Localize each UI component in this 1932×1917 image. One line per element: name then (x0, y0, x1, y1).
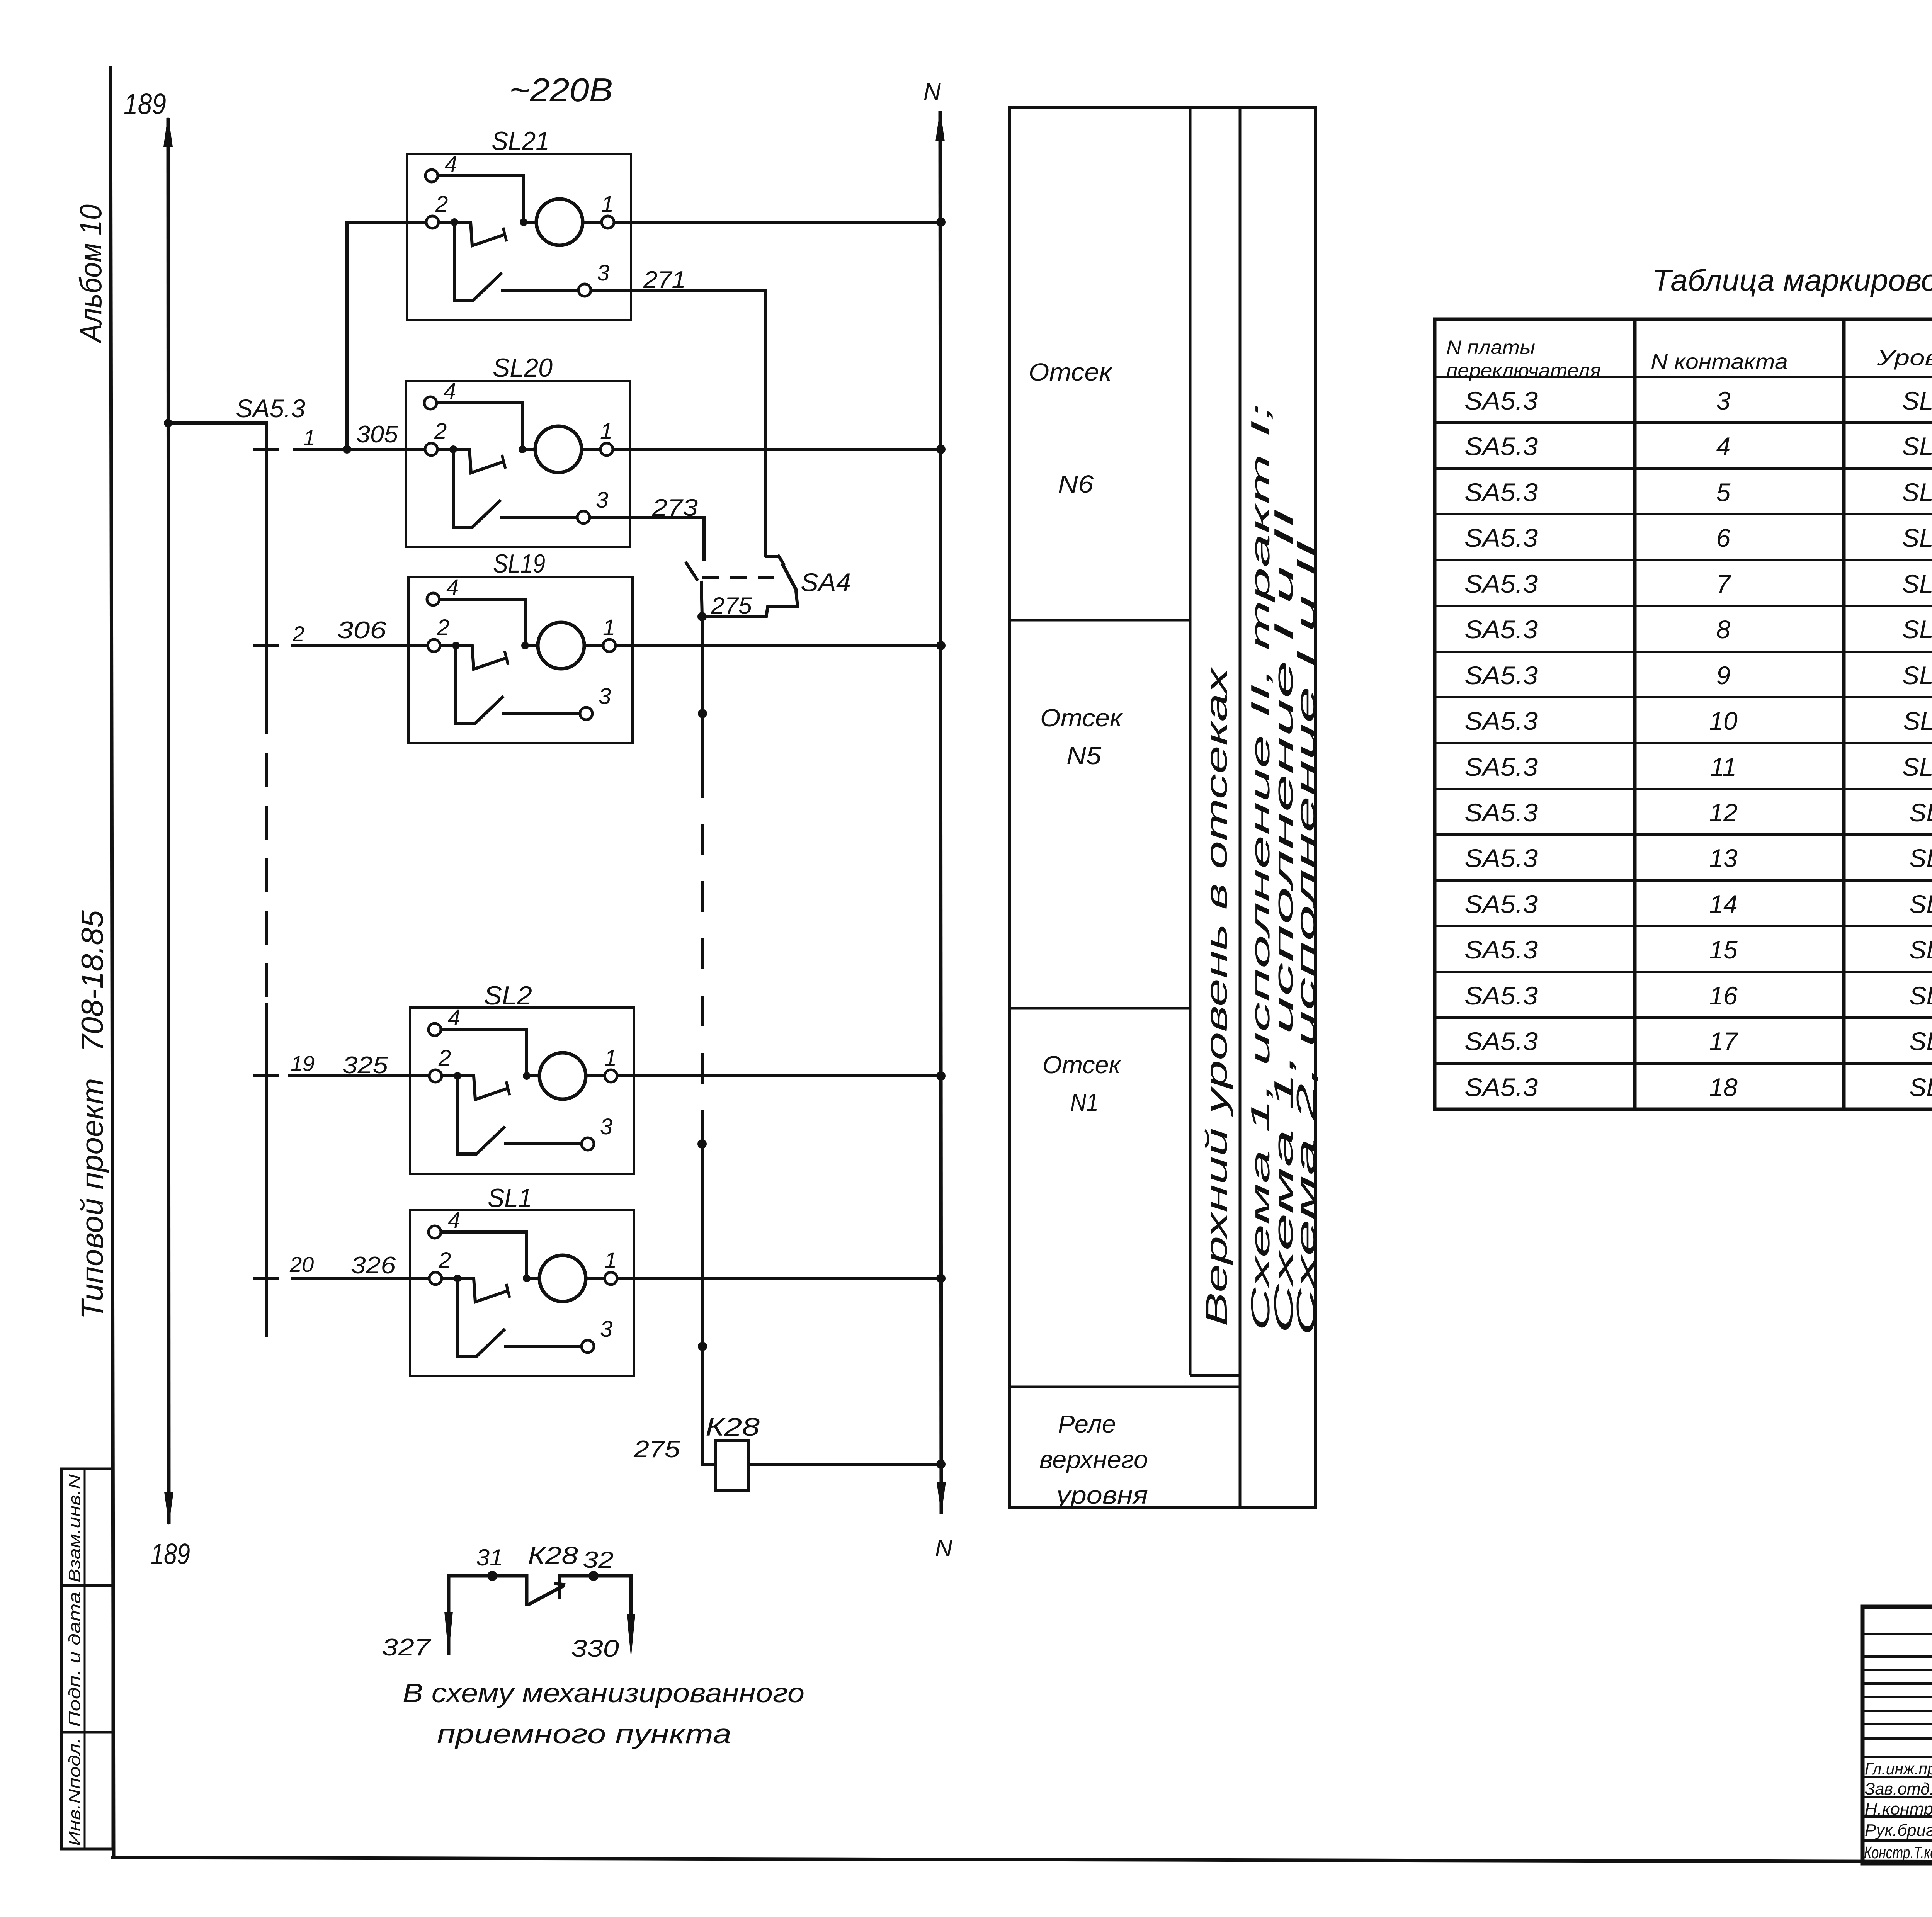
svg-text:Отсек: Отсек (1029, 358, 1113, 386)
svg-text:N: N (923, 78, 941, 105)
wire SL2 pin1 to N bus (617, 1074, 941, 1077)
svg-text:Верхний уровень в отсеках: Верхний уровень в отсеках (1199, 666, 1233, 1326)
terminal dot 32 (588, 1571, 599, 1581)
svg-text:Подп. и дата: Подп. и дата (65, 1592, 83, 1727)
svg-text:SL2: SL2 (484, 981, 532, 1010)
wire from SA4 left contact down to node 275 (701, 581, 702, 617)
svg-text:SL19: SL19 (493, 549, 545, 578)
divider Отсек N6 / N5 (1010, 619, 1190, 622)
wire 325 (288, 1074, 429, 1077)
wire 305 (293, 448, 425, 451)
svg-text:31: 31 (476, 1545, 503, 1570)
junction dot SL19.1 on N bus (936, 641, 946, 650)
sheet frame bottom border (111, 1858, 1932, 1863)
svg-text:SL20: SL20 (493, 353, 553, 382)
svg-text:SL3: SL3 (1909, 1073, 1932, 1101)
svg-text:19: 19 (291, 1051, 315, 1076)
relay coil K28 (716, 1440, 748, 1490)
switch SA4 dashed actuator link (702, 576, 777, 579)
svg-text:271: 271 (643, 267, 686, 293)
svg-text:306: 306 (337, 617, 387, 644)
compartments chart outer box (1010, 107, 1316, 1507)
svg-text:3: 3 (1716, 386, 1731, 415)
svg-text:SA5.3: SA5.3 (1464, 707, 1538, 735)
junction dot SL19.3 on 275 bus (698, 709, 707, 718)
divider bottom of middle column (1190, 1374, 1240, 1377)
svg-text:Отсек: Отсек (1040, 704, 1123, 732)
SA5.3 contact 2 crossbar (253, 644, 279, 647)
N neutral bus vertical (940, 111, 941, 1514)
level sensor SL2 (410, 1005, 634, 1174)
wire from SL21 pin2 down to wire 305 (347, 222, 426, 449)
svg-text:N контакта: N контакта (1651, 349, 1788, 374)
level sensor SL1 (410, 1208, 634, 1376)
svg-text:Альбом 10: Альбом 10 (73, 204, 108, 344)
svg-text:189: 189 (124, 88, 166, 120)
svg-text:327: 327 (382, 1634, 432, 1661)
wire 275 bus solid upper part (701, 617, 704, 767)
arrowhead down wire 330 (627, 1614, 635, 1658)
sidebar stamp box: Подп. и дата (61, 1586, 113, 1732)
wire 189 vertical bus (left) (168, 118, 169, 1524)
svg-text:17: 17 (1709, 1027, 1738, 1055)
svg-text:SL14: SL14 (1902, 569, 1932, 598)
svg-text:2: 2 (292, 622, 304, 646)
arrowhead down wire 327 (444, 1612, 453, 1655)
svg-text:Схема 2, исполнение I и II: Схема 2, исполнение I и II (1291, 540, 1321, 1336)
junction dot SL21.1 on N bus (936, 218, 946, 227)
table row 10: SA5.3 | 12 | SL9 | 317 (1464, 798, 1932, 827)
svg-text:уровня: уровня (1054, 1481, 1148, 1509)
table row 6: SA5.3 | 8 | SL13 | 313 (1464, 615, 1932, 644)
svg-text:К28: К28 (706, 1412, 760, 1441)
wire SL1 pin1 to N bus (617, 1277, 941, 1280)
table row 12: SA5.3 | 14 | SL7 | 319 (1464, 890, 1932, 918)
svg-text:SA5.3: SA5.3 (1464, 569, 1538, 598)
svg-text:SA5.3: SA5.3 (1464, 1027, 1538, 1055)
svg-text:6: 6 (1716, 523, 1731, 552)
level sensor SL21 (407, 151, 631, 320)
svg-text:N6: N6 (1058, 470, 1094, 498)
svg-text:Гл.инж.пр.: Гл.инж.пр. (1865, 1759, 1932, 1778)
arrowhead down on N bus (937, 1482, 946, 1514)
svg-text:SA5.3: SA5.3 (1464, 432, 1538, 461)
svg-text:SL1: SL1 (488, 1183, 532, 1213)
title block grid (1862, 1607, 1932, 1863)
svg-text:20: 20 (289, 1252, 314, 1276)
switch SA5.3 common bus lower solid section (265, 1003, 268, 1337)
arrowhead up on N bus (935, 109, 945, 141)
svg-text:переключателя: переключателя (1446, 360, 1601, 381)
sheet frame left border (111, 66, 114, 1858)
svg-text:SA5.3: SA5.3 (1464, 798, 1538, 827)
svg-text:Инв.Nподл.: Инв.Nподл. (65, 1738, 83, 1846)
svg-text:1: 1 (303, 425, 315, 450)
svg-text:SA5.3: SA5.3 (1464, 981, 1538, 1010)
svg-text:326: 326 (351, 1252, 396, 1279)
svg-text:SL12: SL12 (1902, 661, 1932, 690)
svg-text:SA5.3: SA5.3 (1464, 661, 1538, 690)
wire link node275 to SA4 blade end (702, 591, 798, 617)
svg-text:Таблица маркировок: Таблица маркировок (1652, 263, 1932, 297)
svg-text:SA5.3: SA5.3 (1464, 523, 1538, 552)
svg-text:SA5.3: SA5.3 (1464, 386, 1538, 415)
junction dot SL20.1 on N bus (936, 445, 946, 454)
SA5.3 contact 1 crossbar (253, 448, 279, 451)
divider Отсек N5 / N1 (1010, 1007, 1190, 1010)
svg-text:14: 14 (1709, 890, 1737, 918)
marking table grid (1435, 319, 1932, 1109)
wire 273 from SL20 pin3 down to SA4 (590, 517, 704, 561)
svg-text:N5: N5 (1066, 742, 1101, 770)
svg-text:Реле: Реле (1058, 1410, 1116, 1438)
svg-text:12: 12 (1709, 798, 1737, 827)
K28 aux contact tick (554, 1583, 565, 1585)
svg-text:SL18: SL18 (1902, 386, 1932, 415)
wire SL19 pin1 to N bus (616, 644, 941, 647)
junction dot SL1.1 on N bus (936, 1274, 946, 1283)
svg-text:SA5.3: SA5.3 (1464, 1073, 1538, 1101)
svg-text:SL10: SL10 (1902, 753, 1932, 781)
node: junction of 189 bus and SA5.3 feeder (164, 419, 172, 427)
svg-text:SL17: SL17 (1902, 432, 1932, 461)
table row 11: SA5.3 | 13 | SL8 | 318 (1464, 844, 1932, 872)
svg-text:Уровень: Уровень (1877, 345, 1932, 370)
SA5.3 contact 19 crossbar (253, 1074, 279, 1077)
svg-text:SA5.3: SA5.3 (236, 394, 305, 423)
svg-text:18: 18 (1709, 1073, 1738, 1101)
svg-text:7: 7 (1716, 569, 1731, 598)
svg-text:SA5.3: SA5.3 (1464, 478, 1538, 506)
svg-text:В схему механизированного: В схему механизированного (403, 1678, 804, 1708)
arrowhead down on wire 189 (164, 1492, 173, 1525)
table row 1: SA5.3 | 3 | SL18 | 307 (1464, 386, 1932, 415)
svg-text:189: 189 (151, 1538, 190, 1570)
svg-text:SL8: SL8 (1909, 844, 1932, 872)
svg-text:Взам.инв.N: Взам.инв.N (65, 1474, 83, 1582)
wire 326 (291, 1277, 429, 1280)
table row 7: SA5.3 | 9 | SL12 | 314 (1464, 661, 1932, 690)
svg-text:9: 9 (1716, 661, 1731, 690)
wire 275 bus lower solid part to relay K28 (702, 1120, 716, 1464)
SA5.3 contact 20 crossbar (253, 1277, 279, 1280)
svg-text:SA4: SA4 (801, 568, 851, 597)
svg-text:верхнего: верхнего (1039, 1446, 1148, 1473)
table row 2: SA5.3 | 4 | SL17 | 308 (1464, 432, 1932, 461)
terminal dot 31 (487, 1571, 497, 1581)
wire K28 coil to N bus (748, 1463, 941, 1466)
svg-text:SL9: SL9 (1909, 798, 1932, 827)
table row 13: SA5.3 | 15 | SL6 | 321 (1464, 935, 1932, 964)
table row 15: SA5.3 | 17 | SL4 | 323 (1464, 1027, 1932, 1055)
wire SL20 pin1 to N bus (613, 448, 941, 451)
divider above Реле section (1010, 1386, 1240, 1388)
switch SA4 pivot jog and tick (765, 555, 779, 558)
svg-text:SL11: SL11 (1903, 707, 1932, 735)
svg-text:К28: К28 (528, 1541, 578, 1569)
compartments chart inner vertical line 2 (1239, 107, 1242, 1507)
junction dot wire305/SL21 feeder (343, 445, 351, 454)
svg-text:N1: N1 (1070, 1088, 1099, 1116)
svg-text:4: 4 (1716, 432, 1731, 461)
svg-text:Отсек: Отсек (1043, 1051, 1122, 1079)
svg-text:~220В: ~220В (509, 72, 613, 109)
svg-text:32: 32 (583, 1547, 614, 1573)
svg-text:приемного пункта: приемного пункта (437, 1719, 731, 1749)
sidebar stamp box: Взам.инв.N (61, 1469, 113, 1586)
svg-text:Констр.Т.кол: Констр.Т.кол (1864, 1843, 1932, 1862)
arrowhead up on wire 189 (163, 114, 173, 147)
svg-text:275: 275 (711, 593, 752, 619)
junction dot SL2.1 on N bus (936, 1071, 946, 1081)
svg-text:SL15: SL15 (1902, 523, 1932, 552)
switch SA4 left contact tick (685, 562, 698, 581)
wire SL21 pin1 to N bus (614, 221, 941, 224)
wire from 189 bus to switch SA5.3 (168, 423, 266, 700)
svg-text:10: 10 (1709, 707, 1738, 735)
svg-text:N: N (935, 1535, 952, 1562)
svg-text:5: 5 (1716, 478, 1731, 506)
svg-text:SA5.3: SA5.3 (1464, 844, 1538, 872)
wire 271 from SL21 pin3 down to SA4 (591, 290, 765, 557)
svg-text:275: 275 (633, 1436, 680, 1463)
svg-text:13: 13 (1709, 844, 1738, 872)
svg-text:N платы: N платы (1446, 336, 1535, 358)
junction dot SL1.3 on 275 bus (698, 1342, 707, 1351)
compartments chart inner vertical line 1 (1189, 107, 1192, 1375)
svg-text:8: 8 (1716, 615, 1731, 644)
junction dot SL2.3 on 275 bus (697, 1139, 707, 1149)
node 275 junction dot (697, 612, 707, 621)
svg-text:325: 325 (342, 1052, 388, 1079)
junction dot coil wire on N bus (936, 1460, 946, 1469)
svg-text:273: 273 (652, 495, 698, 521)
svg-text:330: 330 (571, 1635, 619, 1662)
wire 275 bus dashed mid part (701, 767, 704, 1120)
svg-text:15: 15 (1709, 935, 1738, 964)
level sensor SL20 (406, 379, 630, 547)
signature rows: roles (1864, 1759, 1932, 1862)
title block signature area row lines (1862, 1634, 1932, 1841)
sidebar stamp box: Инв.N подл. (61, 1732, 113, 1849)
svg-text:Н.контр.: Н.контр. (1865, 1800, 1932, 1818)
svg-text:SA5.3: SA5.3 (1464, 935, 1538, 964)
K28 aux contact blade (528, 1586, 564, 1605)
wire 306 (291, 644, 428, 647)
svg-text:SA5.3: SA5.3 (1464, 753, 1538, 781)
table row 5: SA5.3 | 7 | SL14 | 312 (1464, 569, 1932, 598)
switch SA4 blade (782, 563, 797, 591)
svg-text:Зав.отд.: Зав.отд. (1865, 1779, 1932, 1798)
switch SA5.3 common bus dashed section (265, 700, 268, 1003)
svg-text:SL5: SL5 (1909, 981, 1932, 1010)
svg-text:SL16: SL16 (1902, 478, 1932, 506)
K28 auxiliary contact top wire left (449, 1576, 527, 1655)
table row 14: SA5.3 | 16 | SL5 | 322 (1464, 981, 1932, 1010)
level sensor SL19 (408, 575, 633, 743)
table row 3: SA5.3 | 5 | SL16 | 309 (1464, 478, 1932, 506)
svg-text:Типовой проект 708-18.85: Типовой проект 708-18.85 (75, 910, 109, 1319)
table row 16: SA5.3 | 18 | SL3 | 324 (1464, 1073, 1932, 1101)
svg-text:SL21: SL21 (492, 126, 549, 156)
svg-text:16: 16 (1709, 981, 1738, 1010)
svg-text:305: 305 (356, 421, 398, 448)
svg-text:SL13: SL13 (1902, 615, 1932, 644)
table row 9: SA5.3 | 11 | SL10 | 316 (1464, 753, 1932, 781)
K28 aux fixed contact (560, 1576, 631, 1618)
svg-text:SL4: SL4 (1909, 1027, 1932, 1055)
table row 4: SA5.3 | 6 | SL15 | 311 (1464, 523, 1932, 552)
svg-text:SA5.3: SA5.3 (1464, 890, 1538, 918)
svg-text:SA5.3: SA5.3 (1464, 615, 1538, 644)
table row 8: SA5.3 | 10 | SL11 | 315 (1464, 707, 1932, 735)
svg-text:SL7: SL7 (1909, 890, 1932, 918)
svg-text:11: 11 (1710, 753, 1737, 781)
svg-text:SL6: SL6 (1909, 935, 1932, 964)
svg-text:Рук.бриг.: Рук.бриг. (1865, 1821, 1932, 1840)
